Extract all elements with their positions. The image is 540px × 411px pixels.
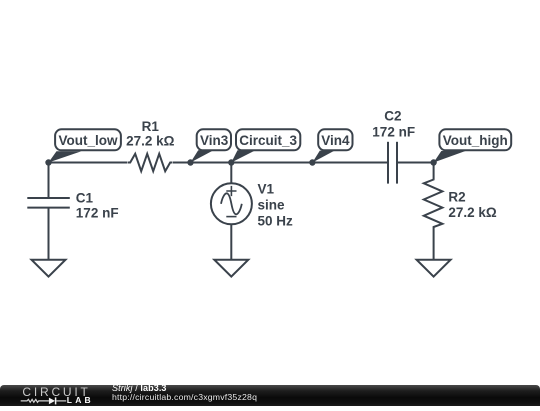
svg-text:C1: C1: [76, 191, 94, 206]
svg-text:R1: R1: [142, 119, 160, 134]
svg-text:27.2 kΩ: 27.2 kΩ: [448, 205, 497, 220]
svg-text:sine: sine: [258, 198, 286, 213]
svg-text:V1: V1: [258, 182, 275, 197]
svg-text:Vin4: Vin4: [321, 133, 350, 148]
svg-text:50 Hz: 50 Hz: [258, 214, 294, 229]
svg-text:LAB: LAB: [67, 394, 94, 404]
svg-text:C2: C2: [384, 108, 401, 123]
svg-text:Circuit_3: Circuit_3: [239, 133, 297, 148]
svg-text:Vout_low: Vout_low: [59, 133, 118, 148]
svg-text:Vin3: Vin3: [200, 133, 229, 148]
svg-text:R2: R2: [448, 190, 465, 205]
svg-text:Vout_high: Vout_high: [443, 133, 508, 148]
svg-text:172 nF: 172 nF: [76, 205, 119, 220]
svg-text:27.2 kΩ: 27.2 kΩ: [126, 134, 175, 149]
svg-text:172 nF: 172 nF: [372, 124, 415, 139]
